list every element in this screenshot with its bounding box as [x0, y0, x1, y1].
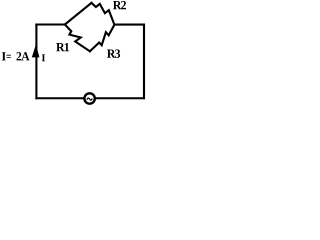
- label I (of I = 2A): [2, 52, 6, 60]
- label I at arrow: [42, 54, 45, 61]
- label R2: [113, 1, 126, 9]
- wire left vertical: [35, 25, 37, 99]
- resistor R1: [65, 25, 90, 52]
- source V1 (AC) circle: [84, 93, 94, 103]
- resistor R2: [92, 3, 115, 25]
- current arrow I: [32, 44, 40, 57]
- wire bottom horizontal: [36, 97, 144, 99]
- label R1: [56, 43, 69, 51]
- wire top-right horizontal: [114, 24, 144, 26]
- label R3: [107, 49, 120, 57]
- source V1 tilde: [87, 98, 92, 100]
- resistor R3: [90, 25, 115, 52]
- wire right vertical: [143, 25, 145, 99]
- wire top-left horizontal: [36, 23, 65, 25]
- label 2A (of I = 2A): [16, 52, 29, 60]
- wire diamond upper-left plain side: [65, 3, 92, 25]
- label = (of I = 2A): [7, 55, 11, 58]
